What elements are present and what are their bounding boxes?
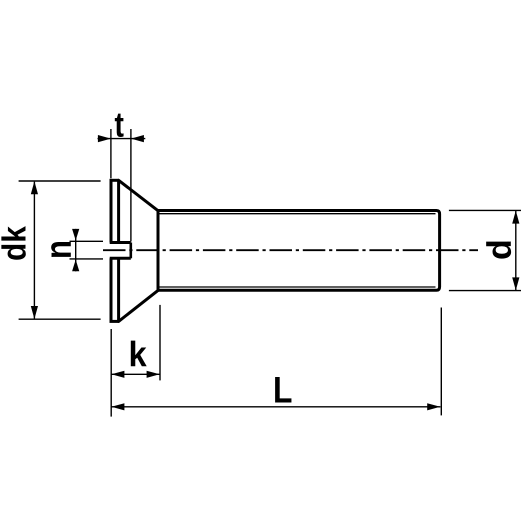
screw head: top edge: [110, 179, 119, 182]
slot top edge: [110, 241, 131, 244]
head/shaft junction line: [157, 211, 160, 291]
dimension dk: dimension line: [33, 182, 35, 319]
dimension n: bottom arrow: [72, 260, 79, 272]
dimension k: dimension line: [111, 373, 160, 375]
slot depth line: [130, 243, 133, 259]
center line: [103, 249, 478, 251]
shaft outline with chamfered end: [157, 211, 440, 291]
screw head: face line upper segment: [110, 180, 113, 242]
dimension n: top extension line: [70, 240, 104, 242]
dimension L: right arrow: [427, 403, 440, 410]
dimension t: right extension line (slot depth): [130, 129, 132, 242]
dimension dk: bottom arrow: [31, 306, 38, 319]
dimension d: top arrow: [512, 211, 519, 224]
dimension L: right extension line: [440, 308, 442, 416]
dimension L: dimension line: [111, 406, 440, 408]
label t: [115, 114, 124, 137]
screw head: cone lower diagonal: [119, 290, 158, 321]
dimension t: left extension line: [110, 129, 112, 178]
screw head: bottom edge: [110, 320, 119, 323]
label L: [275, 377, 291, 402]
slot bottom edge: [110, 257, 131, 260]
dimension dk: top extension line: [19, 180, 101, 182]
label n: [51, 242, 71, 257]
screw head: cone upper diagonal: [119, 180, 158, 210]
dimension d: top extension line: [449, 209, 521, 211]
dimension k: left arrow: [111, 371, 124, 378]
thread line top: [160, 213, 436, 215]
dimension t: right arrow: [131, 135, 144, 142]
screw head: face line lower segment: [110, 258, 113, 321]
dimension dk: top arrow: [31, 181, 38, 194]
dimension k: left extension line: [110, 329, 112, 417]
dimension t: left arrow: [98, 135, 111, 142]
dimension dk: bottom extension line: [19, 318, 101, 320]
dimension d: bottom extension line: [449, 290, 521, 292]
dimension t: dimension line: [98, 138, 146, 140]
label d: [486, 241, 511, 258]
screw head: cone edge line upper segment: [117, 180, 120, 242]
dimension k: right extension line: [159, 305, 161, 381]
dimension d: dimension line: [515, 211, 517, 290]
label k: [131, 341, 147, 367]
dimension k: right arrow: [147, 371, 160, 378]
dimension n: bottom extension line: [70, 258, 104, 260]
dimension d: bottom arrow: [512, 277, 519, 290]
screw head: cone edge line lower segment: [117, 258, 120, 321]
dimension L: left arrow: [111, 403, 124, 410]
label dk: [1, 226, 25, 260]
thread line bottom: [160, 286, 436, 288]
dimension n: top arrow: [72, 229, 79, 241]
dimension n: vertical dimension line: [75, 229, 77, 271]
